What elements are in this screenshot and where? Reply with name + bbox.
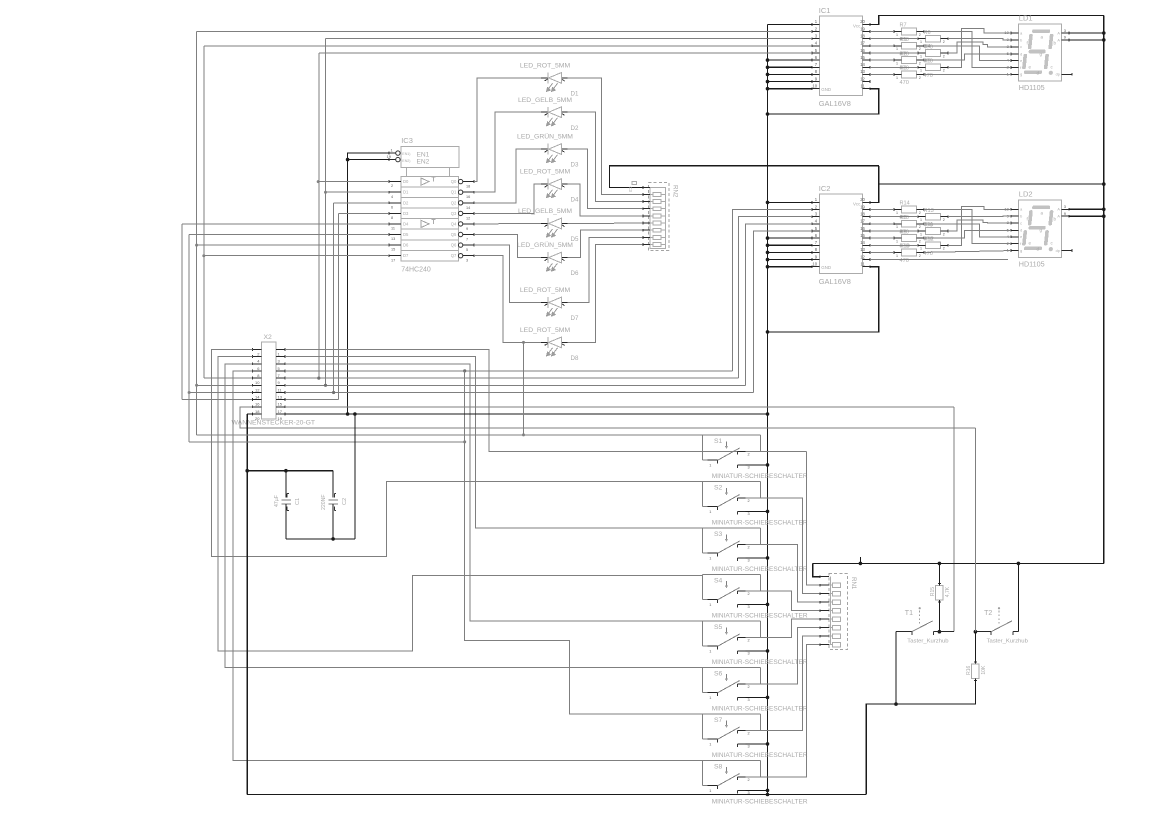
wire IC2 pin7 from bus <box>768 244 813 246</box>
svg-text:GAL16V8: GAL16V8 <box>819 277 851 286</box>
svg-text:2: 2 <box>943 54 945 58</box>
svg-text:D1: D1 <box>403 190 409 195</box>
svg-text:18: 18 <box>255 409 260 414</box>
wire vertical IC1 pin5 / D0 / X2 row5 <box>318 53 320 378</box>
svg-text:Q3: Q3 <box>451 211 457 216</box>
IC IC1 GAL16V8 <box>819 16 862 95</box>
wire X2 pin8 net down-left to S8 <box>233 371 703 761</box>
resistor R7 470 <box>902 28 917 35</box>
wire IC3 Q4 to LED D5 <box>474 223 541 225</box>
svg-text:R5: R5 <box>924 59 931 65</box>
svg-text:A: A <box>1057 31 1060 35</box>
svg-text:R3: R3 <box>900 66 907 72</box>
wire IC2 pin8 from bus <box>768 251 813 253</box>
svg-text:14: 14 <box>860 240 865 245</box>
wire +5V right vertical rail <box>1103 15 1105 563</box>
svg-text:R1: R1 <box>900 37 907 43</box>
resistor R14 470 <box>902 206 917 213</box>
resistor R11 470 <box>926 228 941 235</box>
svg-text:R9: R9 <box>900 229 907 235</box>
wire vertical IC1 pin3 / D1 / X2 row6 <box>325 39 327 386</box>
svg-text:18: 18 <box>860 212 865 217</box>
svg-text:R12: R12 <box>924 237 934 243</box>
svg-text:g: g <box>1020 249 1022 253</box>
svg-text:HD1105: HD1105 <box>1019 260 1045 269</box>
svg-text:220NF: 220NF <box>321 494 327 510</box>
svg-text:2: 2 <box>919 62 921 66</box>
svg-text:1: 1 <box>896 47 898 51</box>
svg-text:C2: C2 <box>342 498 348 505</box>
wire R16 bottom to GND link <box>866 679 975 795</box>
svg-text:1: 1 <box>709 650 711 654</box>
svg-text:10: 10 <box>812 84 817 89</box>
svg-text:D4: D4 <box>571 197 579 204</box>
svg-text:2: 2 <box>748 778 750 782</box>
svg-text:11: 11 <box>861 262 866 267</box>
svg-text:MINIATUR-SCHIEBESCHALTER: MINIATUR-SCHIEBESCHALTER <box>712 566 808 573</box>
wire IC1 pin6 from bus <box>768 59 813 61</box>
svg-text:Q0: Q0 <box>451 179 457 184</box>
wire IC3 Q7 to LED D8 <box>474 256 541 343</box>
wire IC2 to R8 <box>870 223 894 225</box>
wire net segc <box>948 220 1011 231</box>
svg-text:2: 2 <box>748 592 750 596</box>
wire T1 left down to GND link <box>895 632 897 704</box>
wire T2 left to R16 net <box>975 631 991 633</box>
svg-text:20: 20 <box>860 19 865 24</box>
connector X2 WANNENSTECKER-20-GT <box>262 342 276 419</box>
wire IC1 pin5 input <box>319 52 812 54</box>
svg-text:20: 20 <box>255 416 260 421</box>
RN2 common pin stub <box>643 187 650 189</box>
wire C1/C2 top rail <box>247 470 333 472</box>
svg-text:S4: S4 <box>714 577 723 584</box>
wire net segf <box>924 210 1011 244</box>
wire T1 right to riser <box>939 631 954 633</box>
wire net sege <box>924 224 1011 237</box>
wire net sega <box>948 206 1011 245</box>
svg-text:T2: T2 <box>984 610 992 617</box>
svg-text:74HC240: 74HC240 <box>401 267 431 274</box>
svg-text:IC2: IC2 <box>819 184 831 193</box>
svg-text:D3: D3 <box>403 211 409 216</box>
svg-text:EN1): EN1) <box>402 152 410 156</box>
wire RN1 common to rail <box>813 563 820 576</box>
svg-text:3: 3 <box>748 466 750 470</box>
svg-text:IC1: IC1 <box>819 6 831 15</box>
wire +5V horizontal rail <box>813 562 1104 564</box>
svg-text:470: 470 <box>900 80 909 86</box>
svg-text:Taster_Kurzhub: Taster_Kurzhub <box>987 639 1029 645</box>
wire LED D6 cathode to RN2 pin7 <box>568 230 644 257</box>
wire IC2 to R14 <box>870 209 894 211</box>
svg-text:2: 2 <box>748 499 750 503</box>
svg-text:S8: S8 <box>714 763 723 770</box>
svg-text:12: 12 <box>860 254 865 259</box>
svg-text:2: 2 <box>748 452 750 456</box>
svg-text:T1: T1 <box>905 610 913 617</box>
wire LED D1 cathode to RN2 pin2 <box>568 78 644 194</box>
svg-text:1: 1 <box>709 557 711 561</box>
wire IC1 pin10 from bus <box>768 88 813 90</box>
wire LD2 common A to +5V rail <box>1069 208 1104 210</box>
svg-text:5: 5 <box>466 248 468 252</box>
wire X2 pin13 net to IC2 pin5 <box>285 392 753 394</box>
wire D8 tap down to S1 line <box>523 342 525 435</box>
wire net D1 (IC1.3-IC3.D1-X2.11) <box>326 191 390 193</box>
svg-text:S6: S6 <box>714 670 723 677</box>
wire S5 pin2 to RN1 pin6 <box>746 619 821 637</box>
IC3 output Q6 pin <box>458 243 462 247</box>
wire IC1 to R6 <box>870 38 918 40</box>
wire IC2 to R13 <box>870 216 918 218</box>
svg-text:e: e <box>1020 235 1022 239</box>
wire LD1 common A to +5V rail <box>1069 32 1104 34</box>
wire S8 pin2 to RN1 pin9 <box>746 645 821 777</box>
wire S6 pin3 to GND bus <box>746 696 768 698</box>
svg-text:MINIATUR-SCHIEBESCHALTER: MINIATUR-SCHIEBESCHALTER <box>712 519 808 526</box>
IC3 enable pins <box>396 151 400 155</box>
wire tap to S7 <box>465 371 703 714</box>
svg-text:RN1: RN1 <box>850 577 857 590</box>
svg-text:LED_GRÜN_5MM: LED_GRÜN_5MM <box>517 241 573 249</box>
svg-text:d: d <box>1020 52 1022 56</box>
wire IC2 pin12 line <box>870 259 1008 261</box>
wire R15 to T1 <box>938 600 940 632</box>
svg-text:LED_GRÜN_5MM: LED_GRÜN_5MM <box>517 133 573 141</box>
svg-text:11: 11 <box>391 227 395 231</box>
resistor network RN1 <box>829 574 848 650</box>
wire IC1 to R5 <box>870 66 918 68</box>
wire S3 pin3 to GND bus <box>746 557 768 559</box>
wire net D4 (IC3.D4-X2.16) <box>182 223 389 225</box>
svg-text:17: 17 <box>860 219 865 224</box>
svg-text:D3: D3 <box>571 162 579 169</box>
svg-text:S7: S7 <box>714 717 723 724</box>
wire S2 pin2 to RN1 pin3 <box>746 498 821 594</box>
wire LED D8 cathode to RN2 pin9 <box>568 245 644 343</box>
wire net segd <box>924 54 1011 60</box>
wire IC1 pin11 GND loop <box>768 89 879 114</box>
svg-text:D7: D7 <box>403 253 409 258</box>
svg-text:14: 14 <box>255 395 260 400</box>
wire IC3 Q0 to LED D1 <box>474 78 541 182</box>
wire IC1 to R2 <box>870 59 894 61</box>
wire LED D3 cathode to RN2 pin4 <box>568 149 644 209</box>
wire IC3 EN1 net <box>348 153 389 414</box>
svg-text:19: 19 <box>278 416 283 421</box>
svg-text:1: 1 <box>896 62 898 66</box>
svg-text:10: 10 <box>255 380 260 385</box>
svg-text:4: 4 <box>391 195 393 199</box>
svg-text:R15: R15 <box>930 587 936 596</box>
wire IC1 to R1 <box>870 45 894 47</box>
wire S3 pin2 to RN1 pin4 <box>746 544 821 602</box>
wire X2 pin19 GND row <box>285 413 768 415</box>
IC3 input D5 pin <box>389 234 401 236</box>
svg-text:18: 18 <box>860 34 865 39</box>
svg-text:19: 19 <box>860 204 865 209</box>
svg-text:b: b <box>1020 215 1022 219</box>
svg-text:1: 1 <box>896 254 898 258</box>
svg-text:1: 1 <box>920 54 922 58</box>
svg-text:LED_ROT_5MM: LED_ROT_5MM <box>520 63 571 70</box>
svg-text:2: 2 <box>943 232 945 236</box>
svg-text:1: 1 <box>920 40 922 44</box>
svg-text:R16: R16 <box>966 665 972 674</box>
wire net segg <box>924 251 1011 253</box>
svg-text:18: 18 <box>466 185 470 189</box>
wire net segd <box>924 230 1011 238</box>
svg-text:1: 1 <box>920 232 922 236</box>
wire Vcc rail to RN2 <box>610 166 879 188</box>
wire IC2 pin3 input riser <box>739 217 813 378</box>
wire Vcc rail IC2 to right rail <box>879 183 1104 185</box>
wire IC2 pin2 input riser <box>732 210 812 371</box>
wire net segc <box>948 42 1011 53</box>
svg-text:c: c <box>1020 222 1022 226</box>
svg-text:16: 16 <box>860 48 865 53</box>
display LD2 HD1105 7-segment <box>1018 200 1061 257</box>
svg-text:D6: D6 <box>571 270 579 277</box>
svg-text:13: 13 <box>860 69 865 74</box>
wire net D7 (IC1.4-IC3.D7-X2.10) <box>204 255 389 257</box>
svg-text:2: 2 <box>943 40 945 44</box>
svg-text:470: 470 <box>900 258 909 264</box>
resistor R5 470 <box>926 64 941 71</box>
wire X2 pin17 net to T1 <box>285 406 954 408</box>
IC3 output Q3 pin <box>458 211 462 215</box>
svg-text:1: 1 <box>896 240 898 244</box>
IC3 output Q5 pin <box>458 232 462 236</box>
resistor R13 470 <box>926 213 941 220</box>
wire IC1 pin20 Vcc to top rail <box>870 15 1104 24</box>
svg-text:c: c <box>1020 45 1022 49</box>
wire IC1 pin9 from bus <box>768 81 813 83</box>
svg-text:Q1: Q1 <box>451 190 457 195</box>
resistor R12 470 <box>926 242 941 249</box>
svg-text:2: 2 <box>748 731 750 735</box>
svg-text:19: 19 <box>860 26 865 31</box>
svg-text:MINIATUR-SCHIEBESCHALTER: MINIATUR-SCHIEBESCHALTER <box>712 798 808 805</box>
svg-text:1: 1 <box>709 789 711 793</box>
wire C1/C2 bottom rail <box>286 538 355 540</box>
resistor network RN2 <box>649 183 670 251</box>
wire IC1 pin3 input <box>326 38 813 40</box>
svg-text:16: 16 <box>860 226 865 231</box>
svg-text:12: 12 <box>860 76 865 81</box>
wire IC2 pin20 Vcc riser <box>870 166 879 203</box>
wire X2 pin2 net down-left to S2 <box>211 349 702 556</box>
IC3 output Q2 pin <box>458 201 462 205</box>
svg-text:R2: R2 <box>900 51 907 57</box>
svg-text:3: 3 <box>748 512 750 516</box>
resistor R10 470 <box>902 249 917 256</box>
wire IC1 pin4 input <box>204 45 812 47</box>
svg-text:1: 1 <box>709 743 711 747</box>
svg-text:b: b <box>1020 38 1022 42</box>
wire net segg <box>924 73 1011 75</box>
svg-text:MINIATUR-SCHIEBESCHALTER: MINIATUR-SCHIEBESCHALTER <box>712 752 808 759</box>
svg-text:R10: R10 <box>900 244 910 250</box>
svg-text:LED_ROT_5MM: LED_ROT_5MM <box>520 169 571 176</box>
wire S8 pin3 to GND bus <box>746 789 768 791</box>
wire IC2 to R11 <box>870 230 918 232</box>
wire IC3 Q2 to LED D3 <box>474 149 541 203</box>
svg-text:1: 1 <box>920 247 922 251</box>
wire S6 pin2 to RN1 pin7 <box>746 628 821 684</box>
resistor R1 470 <box>902 42 917 49</box>
wire X2 pin6 net down-left to S6 <box>225 364 703 668</box>
svg-text:2: 2 <box>919 240 921 244</box>
IC3 output Q4 pin <box>458 222 462 226</box>
wire net D0 (IC1.5-IC3.D0-X2.9) <box>318 181 389 183</box>
resistor R15 4,7K <box>936 585 944 599</box>
svg-text:D7: D7 <box>571 315 579 322</box>
wire S4 pin3 to GND bus <box>746 603 768 605</box>
wire LED D4 cathode to RN2 pin5 <box>568 184 644 216</box>
IC IC2 GAL16V8 <box>819 194 862 273</box>
wire S1 feed line <box>197 434 703 436</box>
wire IC2 pin4 input riser <box>745 224 812 385</box>
resistor R6 470 <box>926 35 941 42</box>
wire S4 pin2 to RN1 pin5 <box>746 591 821 611</box>
svg-text:1: 1 <box>709 510 711 514</box>
svg-text:3: 3 <box>748 698 750 702</box>
wire GND bus vertical <box>767 24 769 794</box>
wire X2 pin11 net to IC2 pin4 <box>285 384 745 386</box>
svg-text:A: A <box>1057 208 1060 212</box>
svg-text:7: 7 <box>466 238 468 242</box>
svg-text:R4: R4 <box>924 44 931 50</box>
wire X2 pin5 net to S5 <box>285 364 703 621</box>
wire X2 pin7 net to IC2 pin2 <box>285 370 732 372</box>
svg-text:R7: R7 <box>900 23 907 29</box>
wire stub at rail x860.4 <box>859 557 861 564</box>
svg-text:10: 10 <box>812 262 817 267</box>
wire IC2 pin6 from bus <box>768 237 813 239</box>
svg-text:X2: X2 <box>264 334 273 341</box>
svg-text:2: 2 <box>919 254 921 258</box>
wire LED D7 cathode to RN2 pin8 <box>568 237 644 302</box>
svg-text:R13: R13 <box>924 208 934 214</box>
svg-text:1: 1 <box>709 603 711 607</box>
resistor R3 470 <box>902 71 917 78</box>
svg-text:3: 3 <box>748 559 750 563</box>
wire IC1 to R4 <box>870 52 918 54</box>
svg-text:EN1: EN1 <box>417 151 430 158</box>
wire net segf <box>924 32 1011 68</box>
svg-text:1: 1 <box>709 464 711 468</box>
svg-text:2: 2 <box>943 247 945 251</box>
wire LD1 common A2 to +5V rail <box>1069 39 1104 41</box>
svg-text:Taster_Kurzhub: Taster_Kurzhub <box>907 639 949 645</box>
wire IC1 pin8 from bus <box>768 73 813 75</box>
svg-text:LED_GELB_5MM: LED_GELB_5MM <box>518 97 572 104</box>
svg-text:R8: R8 <box>900 215 907 221</box>
svg-text:MINIATUR-SCHIEBESCHALTER: MINIATUR-SCHIEBESCHALTER <box>712 612 808 619</box>
svg-text:20: 20 <box>860 197 865 202</box>
svg-text:2: 2 <box>919 47 921 51</box>
wire IC1 to R3 <box>870 73 894 75</box>
svg-text:2: 2 <box>919 225 921 229</box>
svg-text:2: 2 <box>391 184 393 188</box>
wire spare line y441.9 <box>189 441 465 443</box>
svg-text:C1: C1 <box>295 498 301 505</box>
IC3 input D1 pin <box>389 191 401 193</box>
svg-text:LED_ROT_5MM: LED_ROT_5MM <box>520 287 571 294</box>
svg-text:Q7: Q7 <box>451 253 457 258</box>
svg-text:Q4: Q4 <box>451 221 457 226</box>
svg-text:3: 3 <box>748 745 750 749</box>
IC3 output Q7 pin <box>458 254 462 258</box>
svg-text:12: 12 <box>466 216 470 220</box>
wire T1 right riser <box>953 407 955 632</box>
svg-text:LD2: LD2 <box>1019 190 1033 199</box>
svg-text:15: 15 <box>391 248 395 252</box>
capacitor C3 on Vcc line <box>632 181 637 184</box>
wire net segb <box>948 215 1011 218</box>
svg-text:2: 2 <box>748 545 750 549</box>
svg-text:1: 1 <box>920 69 922 73</box>
svg-text:16: 16 <box>466 195 470 199</box>
wire X2 pin3 net to S3 <box>285 357 703 528</box>
svg-text:Q5: Q5 <box>451 232 457 237</box>
svg-text:16: 16 <box>255 402 260 407</box>
svg-text:13: 13 <box>391 237 395 241</box>
svg-text:MINIATUR-SCHIEBESCHALTER: MINIATUR-SCHIEBESCHALTER <box>712 659 808 666</box>
svg-text:11: 11 <box>861 84 866 89</box>
svg-text:GND: GND <box>821 87 831 92</box>
svg-text:2: 2 <box>919 211 921 215</box>
wire LD2 common A2 to +5V rail <box>1069 215 1104 217</box>
wire net segb <box>948 39 1011 40</box>
svg-text:1: 1 <box>896 211 898 215</box>
svg-text:1: 1 <box>896 225 898 229</box>
svg-text:R6: R6 <box>924 30 931 36</box>
wire IC2 pin5 input riser <box>753 231 812 393</box>
wire S2 pin3 to GND bus <box>746 510 768 512</box>
svg-text:d: d <box>1020 229 1022 233</box>
svg-text:2: 2 <box>748 685 750 689</box>
svg-text:LD1: LD1 <box>1019 13 1033 22</box>
svg-text:2: 2 <box>943 69 945 73</box>
wire IC2 pin11 GND loop <box>768 267 879 332</box>
IC3 output Q0 pin <box>458 179 462 183</box>
wire X2 pin4 net down-left to S4 <box>218 357 703 651</box>
svg-text:14: 14 <box>860 62 865 67</box>
wire IC1 pin7 from bus <box>768 66 813 68</box>
svg-text:R11: R11 <box>924 222 934 228</box>
svg-text:15: 15 <box>860 233 865 238</box>
svg-text:IC3: IC3 <box>401 136 413 145</box>
wire IC2 pin1 from bus <box>768 201 813 203</box>
wire GND bottom rail <box>247 794 866 796</box>
svg-text:MINIATUR-SCHIEBESCHALTER: MINIATUR-SCHIEBESCHALTER <box>712 473 808 480</box>
svg-text:3: 3 <box>748 605 750 609</box>
svg-text:13: 13 <box>860 247 865 252</box>
wire net D3 (IC3.D3-X2.15) <box>339 212 390 214</box>
svg-text:A: A <box>1057 38 1060 42</box>
wire net sege <box>924 46 1011 61</box>
svg-text:e: e <box>1020 59 1022 63</box>
svg-text:S1: S1 <box>714 438 723 445</box>
IC3 input D7 pin <box>389 255 401 257</box>
svg-text:S2: S2 <box>714 484 723 491</box>
wire net D5 (IC3.D5-X2.14) <box>189 234 389 236</box>
svg-text:13: 13 <box>278 395 283 400</box>
capacitor C1 47uF <box>285 471 287 498</box>
